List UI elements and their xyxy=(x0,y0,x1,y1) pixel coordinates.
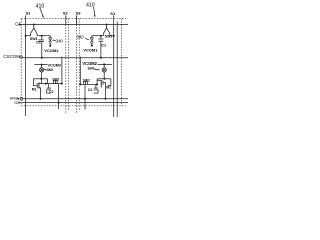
svg-text:410: 410 xyxy=(86,2,95,8)
svg-text:ANO: ANO xyxy=(10,97,18,101)
svg-text:C2: C2 xyxy=(88,88,92,92)
svg-text:VCOM1: VCOM1 xyxy=(83,48,98,53)
svg-text:C1: C1 xyxy=(36,40,41,44)
svg-text:S3: S3 xyxy=(76,11,82,16)
svg-text:VCOM2: VCOM2 xyxy=(48,63,62,67)
svg-text:340: 340 xyxy=(56,39,64,44)
svg-text:S1: S1 xyxy=(110,11,116,16)
svg-text:360: 360 xyxy=(88,67,94,71)
svg-text:CSCOM: CSCOM xyxy=(3,54,20,59)
svg-text:C2: C2 xyxy=(49,90,53,94)
svg-text:410: 410 xyxy=(36,3,45,9)
svg-text:M1: M1 xyxy=(32,88,37,92)
svg-text:SW2: SW2 xyxy=(83,79,90,83)
svg-text:SW1: SW1 xyxy=(105,35,113,39)
svg-text:C1: C1 xyxy=(101,44,106,48)
svg-text:360: 360 xyxy=(47,68,53,72)
svg-text:340: 340 xyxy=(77,34,85,39)
svg-text:G1: G1 xyxy=(15,22,21,27)
svg-text:VCOM2: VCOM2 xyxy=(82,61,97,66)
svg-text:G2: G2 xyxy=(14,101,19,105)
svg-text:VCOM1: VCOM1 xyxy=(44,48,59,53)
svg-text:S2: S2 xyxy=(63,11,69,16)
svg-text:SW2: SW2 xyxy=(52,77,59,81)
svg-text:M1: M1 xyxy=(106,86,111,90)
svg-text:S1: S1 xyxy=(26,11,32,16)
